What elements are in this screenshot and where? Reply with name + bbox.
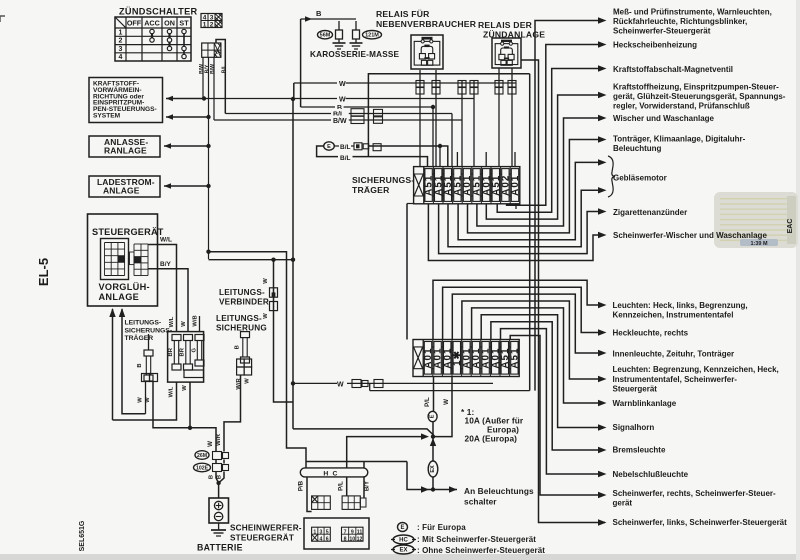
svg-text:B/L: B/L: [221, 64, 227, 73]
svg-text:Beleuchtung: Beleuchtung: [613, 144, 662, 153]
svg-text:Instrumententafel, Scheinwerfe: Instrumententafel, Scheinwerfer-: [613, 375, 738, 384]
svg-text:B: B: [209, 475, 215, 479]
svg-text:E: E: [400, 525, 404, 531]
svg-text:Bremsleuchte: Bremsleuchte: [613, 446, 666, 455]
svg-text:RELAIS FÜR: RELAIS FÜR: [376, 9, 430, 19]
svg-text:An Beleuchtungs: An Beleuchtungs: [464, 486, 534, 496]
svg-text:STEUERGERÄT: STEUERGERÄT: [230, 533, 294, 543]
svg-text:Rückfahrleuchte, Richtungsblin: Rückfahrleuchte, Richtungsblinker,: [613, 17, 747, 26]
svg-text:20A (Europa): 20A (Europa): [465, 434, 518, 444]
svg-text:BATTERIE: BATTERIE: [197, 543, 243, 553]
svg-text:W: W: [182, 385, 188, 391]
svg-text:Leuchten: Begrenzung, Kennzeic: Leuchten: Begrenzung, Kennzeichen, Heck,: [613, 365, 779, 374]
svg-text:B: B: [217, 475, 223, 479]
svg-text:B/W: B/W: [333, 118, 347, 125]
svg-text:1: 1: [313, 529, 316, 535]
svg-text:EAC: EAC: [787, 219, 794, 234]
svg-text:121M: 121M: [365, 33, 379, 39]
svg-text:: Mit Scheinwerfer-Steuergerät: : Mit Scheinwerfer-Steuergerät: [417, 535, 536, 544]
svg-text:gerät: gerät: [613, 499, 633, 508]
svg-text:RELAIS DER: RELAIS DER: [478, 20, 533, 30]
svg-text:4: 4: [320, 536, 323, 542]
svg-text:BR: BR: [180, 347, 186, 356]
svg-text:ZÜNDSCHALTER: ZÜNDSCHALTER: [119, 7, 198, 17]
svg-text:E: E: [327, 144, 331, 150]
svg-text:B: B: [235, 345, 241, 349]
svg-text:EX: EX: [399, 548, 407, 554]
svg-text:11: 11: [357, 529, 363, 535]
svg-text:: Ohne Scheinwerfer-Steuergerä: : Ohne Scheinwerfer-Steuergerät: [417, 546, 545, 555]
svg-text:A01: A01: [510, 175, 521, 196]
svg-text:W: W: [138, 397, 144, 403]
svg-text:EX: EX: [430, 465, 436, 473]
svg-text:ST: ST: [179, 19, 189, 28]
svg-text:12: 12: [357, 536, 363, 542]
svg-text:SYSTEM: SYSTEM: [93, 113, 121, 120]
svg-text:EL-5: EL-5: [36, 258, 51, 286]
svg-text:Warnblinkanlage: Warnblinkanlage: [613, 399, 677, 408]
svg-text:VORGLÜH-: VORGLÜH-: [99, 282, 150, 292]
svg-text:B: B: [137, 363, 143, 367]
svg-text:5: 5: [326, 529, 329, 535]
svg-text:B/Y: B/Y: [364, 480, 371, 491]
svg-text:Kraftstoffabschalt-Magnetventi: Kraftstoffabschalt-Magnetventil: [613, 65, 733, 74]
svg-text:W: W: [145, 397, 151, 403]
svg-text:STEUERGERÄT: STEUERGERÄT: [92, 227, 164, 237]
svg-text:H C: H C: [323, 470, 338, 477]
svg-text:B/W: B/W: [210, 64, 216, 74]
svg-text:1:39 M: 1:39 M: [750, 241, 768, 247]
svg-text:4: 4: [203, 15, 207, 22]
svg-text:1: 1: [203, 22, 207, 29]
svg-text:Leuchten: Heck, links, Begrenz: Leuchten: Heck, links, Begrenzung,: [613, 301, 748, 310]
svg-text:W: W: [339, 81, 346, 88]
svg-text:W/L: W/L: [169, 316, 175, 327]
svg-text:ON: ON: [164, 19, 175, 28]
svg-text:P/B: P/B: [298, 480, 305, 491]
svg-text:TRÄGER: TRÄGER: [352, 185, 390, 195]
svg-text:HC: HC: [399, 538, 408, 544]
svg-text:G: G: [192, 348, 198, 353]
svg-text:P/L: P/L: [337, 481, 344, 491]
svg-text:schalter: schalter: [464, 497, 497, 507]
svg-text:Heckscheibenheizung: Heckscheibenheizung: [613, 41, 697, 50]
svg-text:10: 10: [349, 536, 355, 542]
svg-text:Zigarettenanzünder: Zigarettenanzünder: [613, 208, 687, 217]
svg-text:W: W: [181, 321, 187, 327]
svg-text:W: W: [263, 313, 269, 319]
svg-text:3: 3: [210, 15, 214, 22]
svg-text:W/L: W/L: [169, 386, 175, 397]
svg-text:W: W: [339, 96, 346, 103]
svg-text:26M: 26M: [197, 453, 207, 459]
svg-text:SICHERUNGS-: SICHERUNGS-: [125, 327, 173, 334]
svg-text:A51: A51: [510, 347, 521, 368]
svg-text:Scheinwerfer-Steuergerät: Scheinwerfer-Steuergerät: [613, 27, 711, 36]
svg-text:Steuergerät: Steuergerät: [613, 384, 658, 393]
svg-text:Heckleuchte, rechts: Heckleuchte, rechts: [613, 329, 689, 338]
svg-text:W/L: W/L: [160, 237, 172, 244]
svg-text:Scheinwerfer, rechts, Scheinwe: Scheinwerfer, rechts, Scheinwerfer-Steue…: [613, 489, 777, 498]
svg-text:3: 3: [119, 46, 123, 53]
svg-text:W: W: [245, 378, 251, 384]
svg-text:P/L: P/L: [424, 397, 431, 407]
svg-text:BR: BR: [168, 347, 174, 356]
svg-text:Tonträger, Klimaanlage, Digita: Tonträger, Klimaanlage, Digitaluhr-: [613, 135, 746, 144]
svg-text:W: W: [443, 399, 450, 405]
svg-text:ACC: ACC: [144, 19, 160, 28]
svg-text:W: W: [263, 278, 269, 284]
svg-text:LEITUNGS-: LEITUNGS-: [219, 288, 265, 297]
svg-text:7: 7: [344, 529, 347, 535]
svg-text:Kraftstoffheizung, Einspritzpu: Kraftstoffheizung, Einspritzpumpen-Steue…: [613, 83, 779, 92]
svg-text:W/B: W/B: [193, 315, 199, 326]
svg-text:B/Y: B/Y: [160, 261, 172, 268]
svg-text:1: 1: [119, 29, 123, 36]
svg-text:RANLAGE: RANLAGE: [104, 145, 147, 155]
svg-text:SEL651G: SEL651G: [79, 520, 86, 551]
svg-text:Scheinwerfer, links, Scheinwer: Scheinwerfer, links, Scheinwerfer-Steuer…: [613, 518, 788, 527]
svg-text:3: 3: [320, 529, 323, 535]
svg-text:2: 2: [210, 22, 214, 29]
svg-text:regler, Vorwiderstand, Prüfans: regler, Vorwiderstand, Prüfanschluß: [613, 102, 750, 111]
svg-text:gerät, Glühzeit-Steuerungsgerä: gerät, Glühzeit-Steuerungsgerät, Spannun…: [613, 92, 786, 101]
svg-text:LEITUNGS-: LEITUNGS-: [216, 314, 262, 323]
svg-text:102E: 102E: [196, 465, 209, 471]
svg-text:W: W: [207, 441, 214, 447]
svg-text:E: E: [429, 414, 435, 418]
svg-text:SICHERUNGS-: SICHERUNGS-: [352, 175, 414, 185]
svg-text:Scheinwerfer-Wischer und Wasch: Scheinwerfer-Wischer und Waschanlage: [613, 231, 767, 240]
svg-text:ANLAGE: ANLAGE: [103, 185, 140, 195]
svg-text:ANLAGE: ANLAGE: [99, 292, 140, 302]
svg-text:B: B: [316, 9, 322, 18]
svg-text:2: 2: [119, 38, 123, 45]
svg-text:OFF: OFF: [127, 19, 142, 28]
svg-text:SCHEINWERFER-: SCHEINWERFER-: [230, 524, 302, 533]
svg-text:9: 9: [351, 529, 354, 535]
svg-text:W/R: W/R: [215, 433, 222, 446]
svg-text:VERBINDER: VERBINDER: [219, 298, 269, 307]
svg-text:NEBENVERBRAUCHER: NEBENVERBRAUCHER: [376, 19, 477, 29]
svg-text:Innenleuchte, Zeituhr, Tonträg: Innenleuchte, Zeituhr, Tonträger: [613, 349, 735, 358]
svg-text:6: 6: [326, 536, 329, 542]
svg-text:B/L: B/L: [340, 144, 351, 151]
svg-text:Kennzeichen, Instrumententafel: Kennzeichen, Instrumententafel: [613, 311, 734, 320]
svg-text:Nebelschlußleuchte: Nebelschlußleuchte: [613, 470, 689, 479]
svg-text:W: W: [337, 382, 344, 389]
svg-text:Meß- und Prüfinstrumente, Warn: Meß- und Prüfinstrumente, Warnleuchten,: [613, 7, 772, 16]
svg-text:KAROSSERIE-MASSE: KAROSSERIE-MASSE: [310, 50, 400, 59]
svg-text:4: 4: [119, 54, 123, 61]
svg-text:56M: 56M: [320, 33, 331, 39]
svg-text:B/L: B/L: [340, 155, 351, 162]
svg-text:Gebläsemotor: Gebläsemotor: [613, 174, 667, 183]
svg-text:: Für Europa: : Für Europa: [417, 523, 466, 532]
svg-text:Wischer und Waschanlage: Wischer und Waschanlage: [613, 114, 715, 123]
svg-text:Signalhorn: Signalhorn: [613, 423, 655, 432]
svg-text:LEITUNGS-: LEITUNGS-: [125, 320, 162, 327]
svg-text:8: 8: [344, 536, 347, 542]
